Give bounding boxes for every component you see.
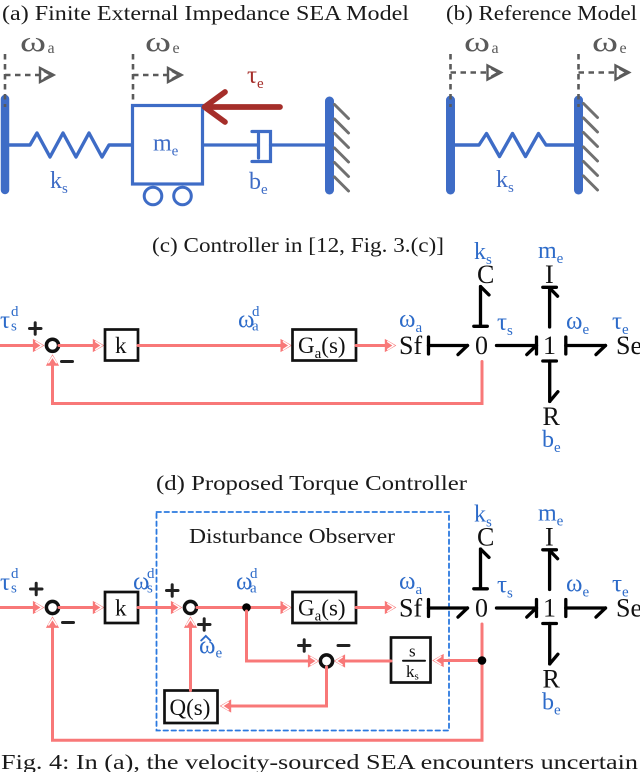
svg-text:I: I (545, 260, 554, 289)
node dot on feedback (d) (478, 656, 487, 665)
svg-text:a: a (492, 40, 499, 57)
bond 0-1 (c) (497, 337, 537, 355)
wheel 1 (a) (144, 187, 162, 205)
svg-text:s: s (409, 642, 416, 661)
svg-text:Q(s): Q(s) (170, 695, 211, 720)
wall hatching (b) (584, 104, 598, 191)
wall hatching (a) (335, 105, 349, 192)
svg-text:s: s (11, 581, 17, 597)
bond 1-R (d) (543, 624, 558, 665)
svg-text:Fig. 4: In (a), the velocity-s: Fig. 4: In (a), the velocity-sourced SEA… (1, 750, 639, 772)
svg-text:s: s (11, 319, 17, 335)
block k (c) (105, 330, 138, 361)
svg-text:(b) Reference Model: (b) Reference Model (446, 1, 637, 25)
svg-text:Sf: Sf (399, 594, 422, 623)
damper rod to wall (a) (271, 143, 326, 146)
bond Sf-0 (c) (429, 337, 468, 355)
bond 1-I (d) (543, 550, 558, 590)
wire sum2 to Ga with node (d) (197, 606, 285, 609)
svg-text:Sf: Sf (399, 331, 422, 360)
svg-text:(d) Proposed Torque Controller: (d) Proposed Torque Controller (156, 471, 467, 495)
wire sum3 down to Q(s) (d) (227, 667, 327, 706)
svg-text:ω: ω (145, 27, 171, 58)
plus sign (d sum2 bottom) (199, 619, 211, 630)
wire Ga to Sf (c) (356, 344, 389, 347)
svg-text:Disturbance Observer: Disturbance Observer (189, 524, 395, 548)
plus sign (d sum3) (299, 640, 311, 651)
arrowhead omega_e (a) (168, 68, 182, 82)
svg-text:ω: ω (592, 27, 618, 58)
svg-text:ω: ω (20, 27, 46, 58)
plus sign (c sum1) (30, 323, 42, 334)
spring k_s (b) (455, 134, 574, 157)
svg-text:e: e (620, 40, 627, 57)
velocity axis omega_e (a) dashed lines (133, 54, 169, 104)
bond 1-I (c) (543, 287, 558, 327)
torque arrow tau_e (a) (206, 104, 280, 110)
wire sum1 to k (d) (59, 606, 97, 609)
summing junction 1 (c) (46, 339, 58, 351)
svg-text:(c) Controller in [12, Fig. 3.: (c) Controller in [12, Fig. 3.(c)] (152, 233, 444, 257)
plus sign (d sum1) (31, 583, 43, 594)
wire s/ks to sum3 (d) (341, 660, 391, 663)
svg-text:k: k (115, 596, 127, 621)
input line tau_s^d (c) (0, 344, 39, 347)
minus sign (d sum1) (63, 621, 74, 624)
minus sign (d sum3) (338, 644, 349, 647)
velocity axis omega_e (b) dashed lines (579, 54, 617, 107)
svg-text:a: a (48, 40, 55, 57)
bond 0-C (d) (474, 549, 489, 589)
svg-text:1: 1 (543, 331, 556, 360)
wall bar left (b) (446, 100, 455, 190)
svg-text:e: e (173, 40, 180, 57)
block s/ks (d) (391, 638, 431, 683)
svg-text:Ga(s): Ga(s) (298, 333, 346, 362)
spring k_s (a) (9, 133, 132, 157)
svg-text:1: 1 (543, 594, 556, 623)
damper rod (a) (203, 143, 258, 146)
wire Q(s) up to sum2 (d) (189, 627, 192, 691)
block Q(s) (d) (165, 691, 218, 724)
bond 0-C (c) (474, 287, 489, 327)
summing junction 1 (d) (46, 601, 58, 613)
node dot omega_a^d (d) (242, 603, 251, 612)
block k (d) (105, 592, 138, 623)
wall bar right (a) (325, 101, 334, 190)
svg-text:Ga(s): Ga(s) (298, 596, 346, 625)
block Ga(s) (c) (293, 330, 357, 361)
wire k to Ga (c) (138, 344, 285, 347)
svg-text:a: a (250, 581, 257, 597)
feedback wire from 0 to sum1 (d) (53, 624, 483, 740)
wire sum1 to k (c) (59, 344, 97, 347)
arrowhead omega_a (a) (40, 68, 54, 82)
bond 1-Se (d) (566, 600, 606, 618)
bond Sf-0 (d) (429, 600, 468, 618)
velocity axis omega_a (a) dashed lines (5, 54, 41, 107)
wall bar right (b) (574, 100, 583, 190)
bond 1-R (c) (543, 361, 558, 402)
minus sign (c sum1) (62, 360, 73, 363)
svg-text:(a) Finite External Impedance: (a) Finite External Impedance SEA Model (2, 1, 409, 25)
svg-text:s: s (147, 581, 153, 597)
damper piston (a) (257, 134, 260, 158)
arrowhead omega_a (b) (488, 66, 502, 80)
wire node omega_a^d down to sum3 (d) (247, 611, 312, 661)
svg-text:τ: τ (0, 307, 10, 334)
feedback wire (c) (53, 362, 483, 404)
wire node to s/ks block (d) (442, 659, 482, 662)
disturbance observer dashed box (d) (157, 512, 450, 731)
svg-text:a: a (252, 319, 259, 335)
bond 1-Se (c) (566, 337, 606, 355)
wheel 2 (a) (174, 187, 192, 205)
input line tau_s^d (d) (0, 606, 39, 609)
svg-text:0: 0 (475, 594, 488, 623)
svg-text:ω: ω (464, 27, 490, 58)
velocity axis omega_a (b) dashed lines (451, 54, 489, 107)
wire Ga to Sf (d) (356, 606, 389, 609)
wall bar left (a) (1, 99, 10, 190)
arrowhead omega_e (b) (616, 66, 630, 80)
bond 0-1 (d) (497, 600, 537, 618)
wire k to sum2 (d) (138, 606, 176, 609)
svg-text:0: 0 (475, 331, 488, 360)
plus sign (d sum2 top) (167, 585, 179, 596)
svg-text:I: I (545, 523, 554, 552)
summing junction 3 (d) (320, 655, 332, 667)
block Ga(s) (d) (293, 592, 357, 623)
mass box m_e (a) (133, 106, 203, 185)
summing junction 2 (d) (184, 601, 196, 613)
svg-text:k: k (115, 333, 127, 358)
damper cylinder b_e (a) (252, 132, 271, 162)
svg-text:τ: τ (0, 569, 10, 596)
